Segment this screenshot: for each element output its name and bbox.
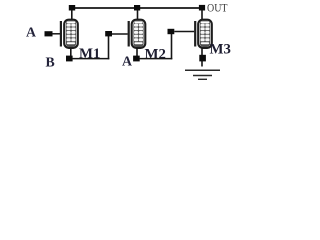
transistor M1 body bbox=[64, 20, 78, 48]
wire M2 drain to rail bbox=[137, 10, 139, 20]
junction at M1 drain bbox=[69, 5, 75, 11]
wire M1 drain to rail bbox=[71, 10, 73, 20]
junction square above ground bbox=[199, 55, 206, 62]
transistor M2 gate bar bbox=[128, 21, 130, 47]
svg-text:B: B bbox=[46, 55, 55, 70]
terminal block at M3 gate wire bbox=[168, 29, 175, 34]
wire M3 drain to rail bbox=[201, 10, 203, 20]
transistor M2 body bbox=[132, 20, 146, 48]
transistor M3 gate bar bbox=[194, 21, 196, 47]
wire to M2 gate bbox=[112, 33, 128, 35]
wire to M3 gate bbox=[174, 31, 194, 33]
wire node B to M2 gate riser bbox=[72, 58, 109, 60]
terminal block at M2 gate wire bbox=[105, 31, 112, 36]
junction square node A bbox=[133, 56, 140, 62]
svg-text:M3: M3 bbox=[210, 42, 231, 58]
svg-text:A: A bbox=[122, 54, 132, 69]
junction at M2 drain bbox=[134, 5, 140, 11]
svg-text:OUT: OUT bbox=[207, 0, 228, 14]
junction at M3 drain / OUT corner bbox=[199, 5, 205, 11]
terminal block of input A bbox=[45, 31, 53, 36]
wire M1 source down bbox=[70, 48, 72, 57]
wire M3 source down to ground bbox=[201, 48, 203, 67]
svg-text:M1: M1 bbox=[79, 46, 100, 62]
transistor M3 body bbox=[198, 20, 212, 48]
svg-text:M2: M2 bbox=[145, 47, 166, 63]
ground bbox=[185, 70, 220, 79]
wire A to M1 gate bbox=[52, 33, 60, 35]
transistor M1 gate bar bbox=[60, 21, 62, 47]
wire riser up to M2 gate bbox=[108, 35, 110, 59]
wire node A to M3 gate riser bbox=[139, 58, 172, 60]
junction square node B bbox=[66, 56, 73, 62]
svg-text:A: A bbox=[26, 25, 36, 40]
wire riser up to M3 gate bbox=[171, 33, 173, 59]
top rail wire (node OUT) bbox=[71, 7, 203, 9]
wire M2 source down bbox=[136, 48, 138, 57]
